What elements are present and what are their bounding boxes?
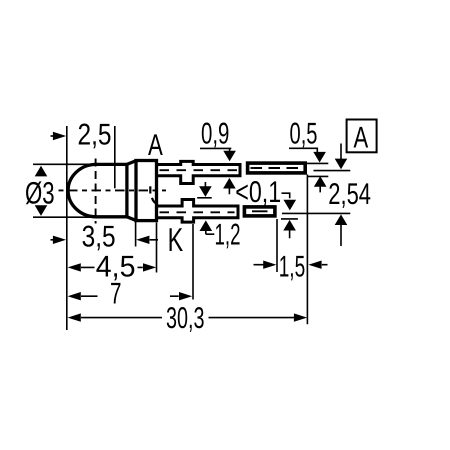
dimension Ø3 arrows — [35, 166, 48, 216]
cathode lead end section — [244, 207, 275, 216]
svg-text:1,5: 1,5 — [279, 250, 306, 283]
ext line cathode lead end — [276, 219, 278, 272]
svg-text:<0,1: <0,1 — [235, 176, 281, 209]
centerline vertical in flange — [149, 186, 151, 193]
flange — [136, 161, 157, 221]
ext line anode lead end — [306, 175, 308, 325]
dimension 4,5 — [68, 263, 157, 271]
ext line lead top edge — [307, 162, 328, 164]
centerline anode lead — [160, 169, 238, 171]
corner tick at cathode lead root — [152, 198, 157, 204]
anode lead end section — [248, 163, 306, 173]
ext line coplanarity — [281, 218, 298, 220]
ext line diameter top — [33, 163, 97, 165]
dimension 1,2 — [199, 182, 214, 234]
bevel slants to flange — [127, 161, 137, 221]
dimension 0,5 — [289, 148, 327, 192]
svg-text:0,9: 0,9 — [201, 118, 229, 151]
ext line lens tip — [66, 126, 68, 330]
dimension 7 — [68, 292, 193, 300]
ext line tab end — [192, 224, 194, 300]
svg-text:2,5: 2,5 — [78, 119, 112, 152]
dimension 30,3 — [68, 313, 308, 321]
svg-text:7: 7 — [110, 277, 122, 310]
ext line cathode centerline 2,54 — [282, 212, 350, 214]
section mark A box — [347, 120, 377, 155]
dimension 0,9 — [200, 148, 236, 194]
svg-text:1,2: 1,2 — [215, 218, 241, 251]
svg-text:3,5: 3,5 — [82, 221, 116, 254]
svg-text:0,5: 0,5 — [290, 118, 318, 151]
svg-text:Ø3: Ø3 — [25, 176, 55, 211]
centerline cathode end section — [252, 210, 268, 212]
svg-text:K: K — [168, 221, 184, 258]
svg-text:A: A — [148, 129, 163, 162]
ext line 2,5 right — [114, 126, 116, 188]
svg-text:30,3: 30,3 — [166, 302, 205, 335]
dimension 1,5 — [254, 261, 328, 269]
centerline cathode lead — [160, 211, 235, 213]
ext line lead bottom edge — [307, 175, 328, 177]
extension lines — [33, 126, 350, 330]
anode lead (top) with stand-off tab — [156, 161, 240, 183]
ext line diameter bottom — [33, 216, 97, 218]
cathode lead (bottom) with stand-off tab — [156, 200, 238, 223]
ext line flange front — [135, 221, 137, 247]
ext line tab top 1,2 — [197, 197, 212, 199]
centerline horizontal through body — [59, 189, 167, 191]
dimension <0,1 leader — [282, 193, 297, 238]
centerline vertical in dome — [95, 159, 97, 224]
ext line anode centerline 2,54 — [314, 170, 351, 172]
dimension 2,5 — [51, 132, 67, 140]
svg-text:A: A — [354, 121, 369, 154]
ext line flange back — [156, 223, 158, 273]
svg-text:2,54: 2,54 — [328, 178, 371, 211]
centerline anode end section — [251, 167, 303, 169]
dimension 2,54 — [335, 144, 348, 247]
LED body outline with dome lens — [68, 161, 156, 221]
dimension 3,5 — [51, 236, 159, 244]
